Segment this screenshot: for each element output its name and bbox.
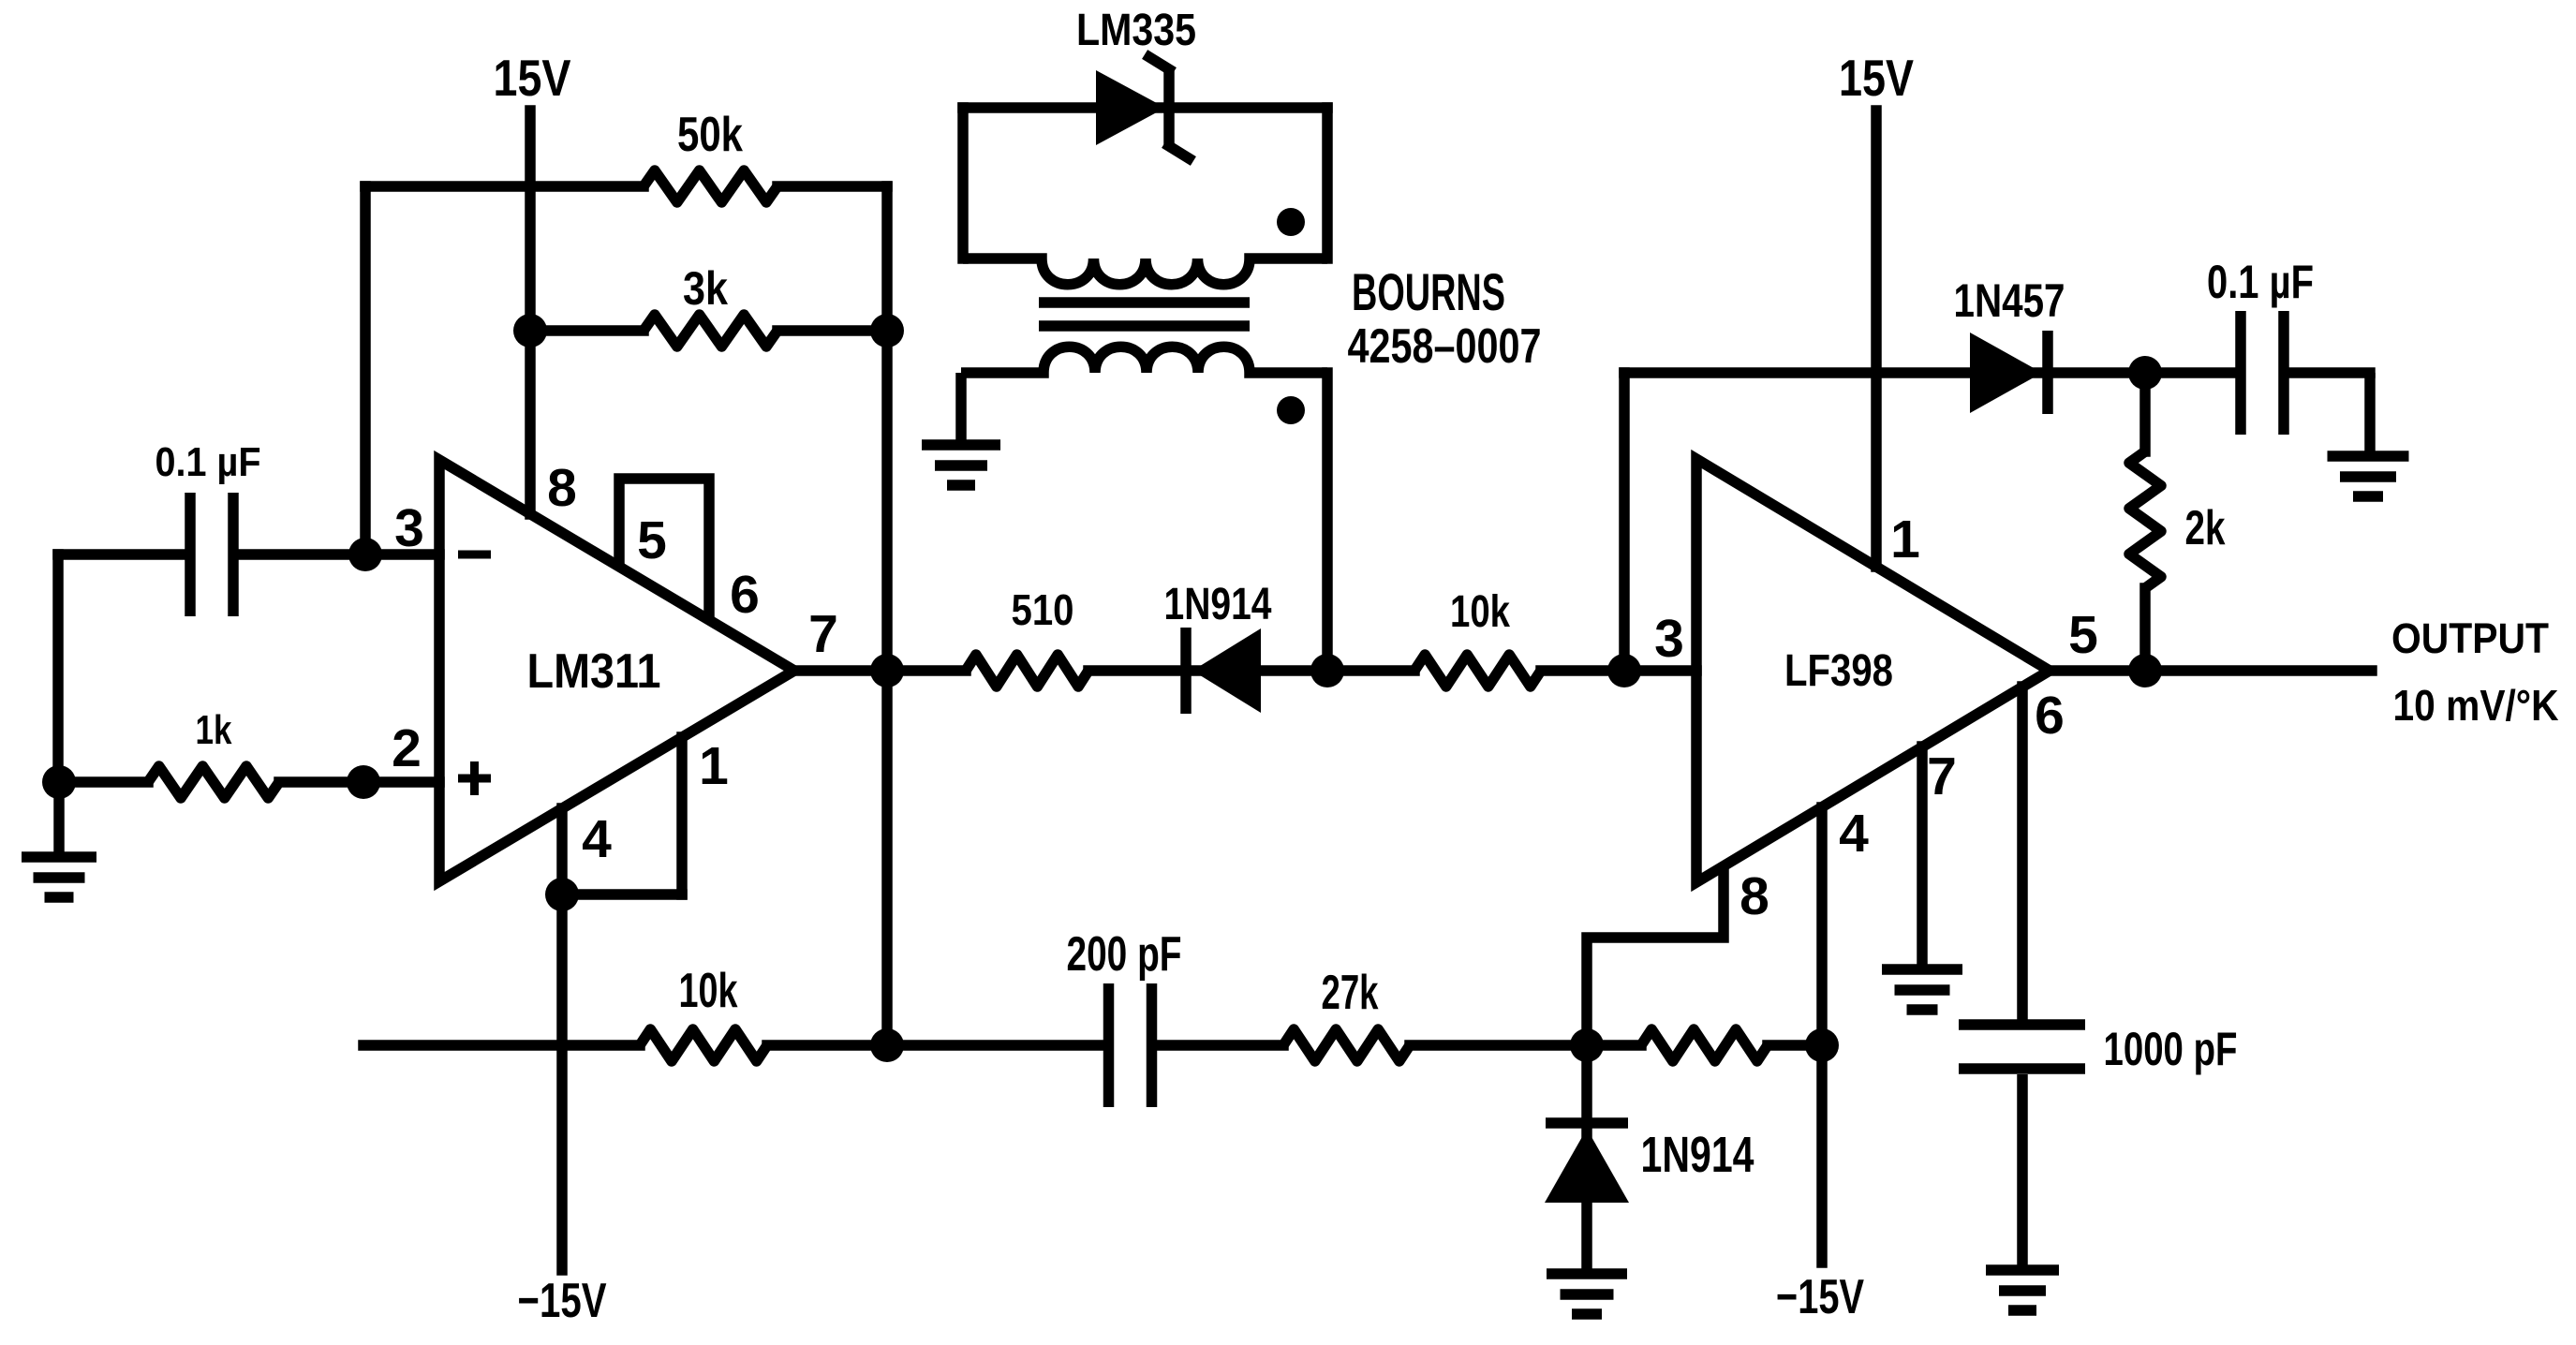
svg-text:15V: 15V — [1839, 49, 1914, 107]
svg-text:1: 1 — [1890, 510, 1920, 569]
svg-text:LM335: LM335 — [1076, 6, 1196, 55]
svg-text:15V: 15V — [494, 49, 571, 107]
svg-text:5: 5 — [637, 510, 667, 570]
svg-text:6: 6 — [2035, 686, 2065, 746]
svg-text:−15V: −15V — [1776, 1270, 1864, 1324]
svg-text:LM311: LM311 — [527, 644, 661, 699]
svg-text:BOURNS: BOURNS — [1352, 262, 1505, 321]
svg-text:10 mV/°K: 10 mV/°K — [2393, 681, 2559, 730]
svg-text:10k: 10k — [1450, 587, 1510, 637]
svg-text:LF398: LF398 — [1784, 646, 1893, 696]
svg-text:3: 3 — [1654, 609, 1684, 669]
svg-text:3: 3 — [394, 498, 424, 558]
svg-text:1N914: 1N914 — [1641, 1127, 1754, 1183]
svg-text:4: 4 — [1839, 804, 1869, 864]
svg-text:200 pF: 200 pF — [1067, 927, 1182, 982]
svg-text:7: 7 — [808, 604, 838, 664]
svg-text:3k: 3k — [683, 262, 728, 315]
svg-text:OUTPUT: OUTPUT — [2391, 614, 2549, 662]
svg-text:2: 2 — [392, 718, 422, 778]
svg-text:1N914: 1N914 — [1164, 580, 1272, 629]
svg-text:1000 pF: 1000 pF — [2104, 1023, 2238, 1075]
svg-text:27k: 27k — [1322, 966, 1379, 1020]
svg-text:0.1 µF: 0.1 µF — [2207, 256, 2314, 308]
svg-text:5: 5 — [2068, 605, 2098, 665]
svg-text:510: 510 — [1012, 585, 1074, 634]
svg-text:8: 8 — [1740, 866, 1769, 926]
svg-text:−15V: −15V — [518, 1274, 607, 1328]
svg-text:7: 7 — [1927, 746, 1957, 806]
svg-text:0.1 µF: 0.1 µF — [155, 439, 261, 485]
svg-text:6: 6 — [730, 565, 760, 625]
svg-text:1N457: 1N457 — [1954, 274, 2065, 327]
svg-text:1: 1 — [699, 736, 729, 796]
svg-text:8: 8 — [547, 458, 577, 518]
svg-text:2k: 2k — [2185, 501, 2226, 555]
svg-text:4258–0007: 4258–0007 — [1348, 319, 1542, 374]
svg-text:10k: 10k — [679, 964, 738, 1018]
svg-text:4: 4 — [582, 809, 612, 869]
svg-text:1k: 1k — [196, 707, 232, 753]
svg-text:50k: 50k — [677, 108, 743, 162]
